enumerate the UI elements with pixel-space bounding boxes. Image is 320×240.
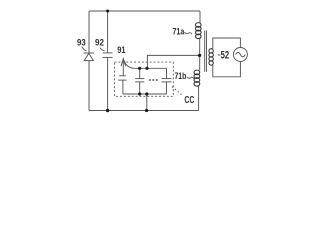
svg-text:71a: 71a — [173, 26, 186, 36]
svg-text:CC: CC — [184, 95, 194, 106]
svg-text:93: 93 — [77, 38, 86, 48]
svg-text:52: 52 — [221, 49, 230, 61]
svg-text:92: 92 — [95, 38, 104, 48]
svg-text:71b: 71b — [175, 71, 187, 81]
svg-text:91: 91 — [117, 45, 125, 55]
